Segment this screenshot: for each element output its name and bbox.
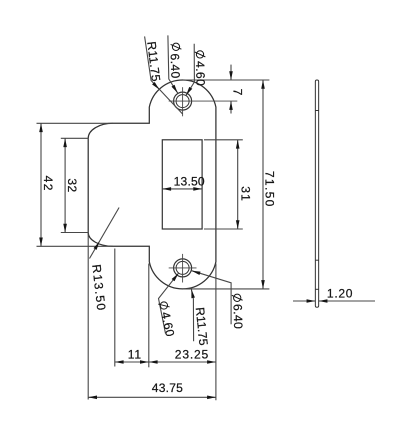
- svg-text:6.40: 6.40: [168, 53, 183, 79]
- svg-text:7: 7: [231, 89, 245, 96]
- svg-text:1.20: 1.20: [327, 286, 353, 300]
- svg-text:6.40: 6.40: [231, 304, 246, 329]
- svg-text:32: 32: [65, 178, 79, 192]
- svg-text:43.75: 43.75: [152, 381, 183, 395]
- svg-text:11: 11: [128, 348, 142, 362]
- svg-text:31: 31: [238, 186, 252, 202]
- svg-text:23.25: 23.25: [175, 348, 209, 362]
- svg-text:42: 42: [41, 176, 55, 192]
- svg-text:71.50: 71.50: [262, 171, 276, 208]
- svg-text:4.60: 4.60: [193, 61, 207, 86]
- svg-text:13.50: 13.50: [174, 174, 205, 188]
